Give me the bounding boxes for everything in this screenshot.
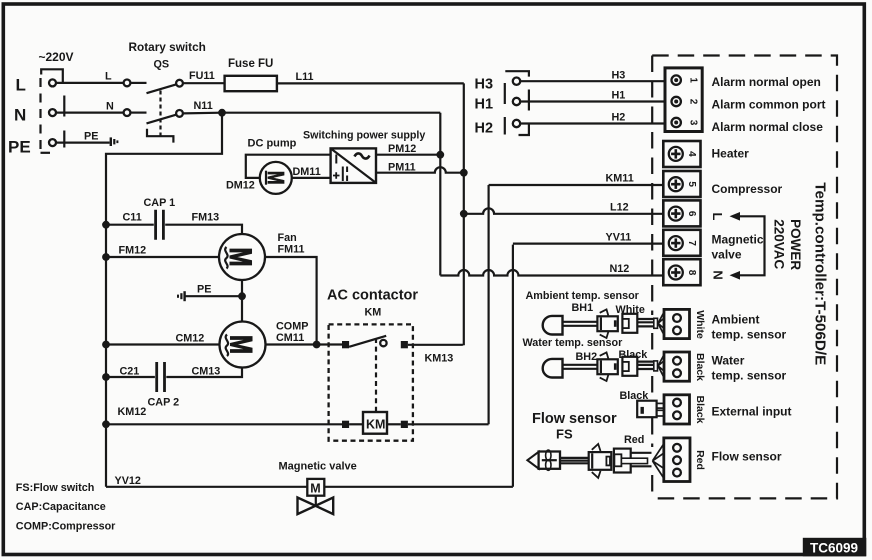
svg-text:4: 4 [686,151,697,157]
svg-text:Alarm common port: Alarm common port [712,98,826,112]
svg-text:C21: C21 [120,366,140,378]
ambient connector female [622,314,637,333]
power L arrow [710,212,764,280]
svg-text:FM12: FM12 [119,245,147,257]
svg-text:AC contactor: AC contactor [327,288,418,304]
svg-text:KM: KM [366,418,385,432]
svg-text:Flow sensor: Flow sensor [712,450,782,464]
wire coil to riser [408,423,489,425]
svg-text:FS:Flow switch: FS:Flow switch [16,482,95,494]
ambient connector male [597,309,617,338]
junction CM12 [102,341,110,349]
fan labels [278,232,305,256]
wire DM12 [226,155,331,192]
plug pin N [63,96,65,117]
junction PE fan [238,292,246,300]
svg-text:H2: H2 [612,112,626,124]
svg-text:H3: H3 [612,70,626,82]
contactor contact KM [342,336,408,349]
wire fan bottom to comp top [241,280,243,322]
ground PE left [111,137,118,146]
wire H1 to T2 [521,90,666,102]
svg-text:N12: N12 [610,263,630,275]
flow sensor FS paddle [527,450,589,470]
svg-text:H3: H3 [475,77,494,93]
fan motor FM [219,234,265,280]
flow connector male [589,444,612,478]
junction FM12 [102,253,110,261]
svg-text:Red: Red [624,434,644,446]
svg-text:KM: KM [365,307,382,319]
switch linkage bracket [147,129,173,143]
svg-text:7: 7 [686,240,697,246]
wire L to switch [56,71,124,83]
svg-text:Fuse FU: Fuse FU [228,58,273,70]
terminal 8 box [663,259,700,285]
water right label [712,354,787,383]
node N terminal [14,106,56,125]
POWER 220VAC rotated [772,219,804,270]
svg-text:DM11: DM11 [293,166,321,178]
svg-text:Black: Black [694,395,706,423]
terminal 2 [672,97,681,106]
svg-text:Temp.controller:T-506D/E: Temp.controller:T-506D/E [812,182,829,365]
wire N11 to left trunk [106,113,222,487]
svg-text:DC pump: DC pump [248,138,297,150]
mains enclosure dashed line [41,78,51,153]
plug pin PE [63,131,65,148]
node L terminal [16,76,57,95]
external input connector [637,401,664,418]
svg-text:POWER: POWER [788,219,803,270]
wire FM12 [106,245,219,258]
svg-text:KM13: KM13 [425,353,454,365]
wire CM12 [106,333,220,345]
wire KM12 [106,406,342,424]
svg-text:H1: H1 [612,90,626,102]
svg-text:H1: H1 [475,97,494,113]
svg-text:Water temp. sensor: Water temp. sensor [523,337,624,349]
svg-text:YV11: YV11 [606,232,632,244]
wire DM11 [292,166,331,178]
wire CM11 right [266,343,343,345]
svg-text:PE: PE [8,138,31,157]
svg-text:H2: H2 [475,121,494,137]
svg-text:2: 2 [688,99,699,105]
contactor coil KM [342,412,408,434]
svg-text:M: M [223,248,258,267]
temp controller dashed enclosure [652,56,837,499]
right side terminal labels [712,75,821,89]
terminal 7 box [663,230,700,256]
junction CM11 [313,341,321,349]
svg-text:KM11: KM11 [606,173,634,185]
water connector female [622,357,637,376]
AC contactor dashed box [329,324,413,440]
svg-text:Flow sensor: Flow sensor [532,411,617,427]
svg-text:Switching power supply: Switching power supply [303,130,425,142]
capacitor C11 [106,197,242,240]
svg-text:PE: PE [197,284,211,296]
svg-text:PE: PE [84,131,98,143]
svg-text:External input: External input [712,404,792,418]
water sensor bulb BH2 [543,359,598,378]
svg-text:CAP 2: CAP 2 [148,397,180,409]
fuse FU [225,58,277,91]
ambient terminal block [664,309,706,339]
AC contactor labels [327,288,418,319]
ambient temp sensor labels [526,290,645,316]
svg-text:temp. sensor: temp. sensor [712,328,787,342]
svg-text:M: M [224,335,259,354]
switch pole L [124,80,183,94]
indicator H2 [475,117,529,137]
svg-text:Compressor: Compressor [712,182,783,196]
svg-text:M: M [310,482,320,496]
svg-text:3: 3 [688,120,699,126]
svg-text:Ambient temp. sensor: Ambient temp. sensor [526,290,640,302]
svg-text:DM12: DM12 [226,180,255,192]
svg-text:COMP:Compressor: COMP:Compressor [16,521,116,533]
svg-text:Magnetic valve: Magnetic valve [279,461,357,473]
vertical bus L11 down [463,83,465,345]
svg-text:FM11: FM11 [278,244,305,256]
svg-text:BH1: BH1 [572,302,594,314]
svg-text:QS: QS [154,59,170,71]
svg-text:CAP:Capacitance: CAP:Capacitance [16,501,106,513]
wire N12 to T8 with hops [440,263,663,276]
junction PM11 [460,169,468,177]
svg-text:L12: L12 [610,202,629,214]
svg-text:TC6099: TC6099 [810,541,858,556]
svg-text:L11: L11 [296,71,314,83]
svg-text:Black: Black [694,353,706,381]
wire FM11 right [265,257,317,345]
wire KM13 [408,345,463,365]
legend [16,482,116,533]
svg-text:CM11: CM11 [276,332,304,344]
220V source bracket [41,69,63,83]
water terminal block [664,352,706,381]
switch pole N [124,109,183,123]
terminal 1 [672,75,681,84]
junction C21 [102,373,110,381]
svg-text:White: White [694,310,706,339]
indicator H1 [475,83,529,113]
svg-text:Rotary switch: Rotary switch [129,40,206,54]
compressor motor CM [220,322,266,368]
svg-text:PM11: PM11 [388,162,416,174]
flow terminal block [664,438,706,482]
junction L12 [460,210,468,218]
external terminal block [664,395,706,424]
flow connector plug [614,449,652,473]
svg-text:PM12: PM12 [388,143,416,155]
terminal 5 box [663,171,700,197]
svg-text:220VAC: 220VAC [772,219,787,269]
junction N11 [218,109,226,117]
wire PE to fan [186,295,243,297]
wire N11 [183,100,440,113]
wire PM11 with hop [376,162,464,174]
wire H2 to T3 [521,112,666,124]
svg-text:COMP: COMP [276,321,308,333]
svg-text:L: L [710,213,725,221]
riser YV [512,245,514,487]
svg-text:BH2: BH2 [576,351,598,363]
riser KM11 [488,185,490,424]
wire H3 to T1 [521,70,666,82]
vertical bus N11 down [439,113,441,276]
node PE terminal [8,138,56,157]
svg-text:1: 1 [688,77,699,83]
svg-text:FU11: FU11 [189,70,215,82]
junction KM12 [102,420,110,428]
terminal 6 box [663,200,700,226]
terminal 3 [672,118,681,127]
svg-text:FM13: FM13 [192,212,220,224]
svg-text:5: 5 [686,181,697,187]
wire KM11 to T5 [489,173,664,186]
water temp sensor labels [523,337,649,363]
svg-text:YV12: YV12 [115,475,141,487]
ambient wires to block [637,312,664,335]
water wires to block [637,354,664,377]
ambient sensor bulb BH1 [543,316,598,335]
svg-text:temp. sensor: temp. sensor [712,369,787,383]
wire L11 [277,71,464,83]
indicator H3 [475,71,529,92]
svg-text:Fan: Fan [278,232,297,244]
svg-text:Ambient: Ambient [712,313,760,327]
ground PE mid [178,284,211,302]
terminal block 1-3 [665,68,702,132]
wire N to switch [56,101,124,113]
ambient right label [712,313,787,342]
rotary switch QS [129,40,206,71]
wire YV11 to T7 [513,232,663,244]
contactor linkage dashed [375,338,377,412]
wire PE to ground [56,131,110,143]
water connector male [597,352,617,381]
svg-text:~220V: ~220V [39,50,74,64]
comp labels [276,321,308,345]
svg-text:Red: Red [694,450,706,470]
switching power supply U1 [303,130,425,183]
wire L12 to T6 with hop [464,202,664,214]
svg-text:Magnetic: Magnetic [712,233,764,247]
svg-text:6: 6 [686,211,697,217]
wire switch to fuse [183,82,225,84]
svg-text:N: N [711,270,726,279]
svg-text:valve: valve [712,248,742,262]
svg-text:8: 8 [686,270,697,276]
magnetic valve YV [298,479,334,514]
svg-text:N: N [106,101,114,113]
svg-text:N11: N11 [194,100,213,112]
switch linkage dashed [159,91,161,137]
svg-text:CM12: CM12 [176,333,205,345]
TC6099 title box [803,538,867,557]
svg-text:FS: FS [556,427,573,442]
svg-text:Heater: Heater [712,147,750,161]
junction PM12 [436,151,444,159]
svg-text:Alarm normal close: Alarm normal close [712,120,824,134]
flow sensor labels [532,411,644,446]
svg-text:CAP 1: CAP 1 [144,197,176,209]
DC pump motor DM [260,162,292,194]
terminal 4 box [663,141,700,167]
svg-text:Alarm normal open: Alarm normal open [712,75,821,89]
svg-text:C11: C11 [123,212,142,224]
svg-text:KM12: KM12 [118,406,147,418]
wire PM12 [376,143,440,155]
junction C11 [102,221,110,229]
capacitor C21 [106,362,242,409]
svg-text:L: L [105,71,112,83]
wire YV12 [106,475,513,487]
flow fanout wires [653,444,665,479]
svg-text:Water: Water [712,354,745,368]
svg-text:CM13: CM13 [192,366,221,378]
svg-text:N: N [14,106,26,125]
svg-text:L: L [16,76,26,95]
